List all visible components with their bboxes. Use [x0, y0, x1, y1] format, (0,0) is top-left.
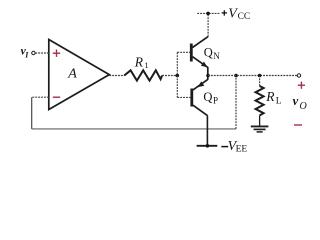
svg-text:L: L — [276, 96, 282, 106]
output polarity + — [298, 82, 305, 89]
svg-text:Q: Q — [203, 90, 212, 104]
op-amp U1 triangle — [49, 40, 110, 110]
output terminal circle — [297, 74, 300, 77]
svg-text:1: 1 — [144, 60, 148, 70]
+VCC supply tick — [197, 12, 220, 14]
svg-text:Q: Q — [204, 46, 213, 60]
svg-text:O: O — [300, 101, 307, 112]
wire feedback bottom run — [32, 128, 236, 130]
node feedback tap on output wire — [234, 74, 238, 78]
wire base bus vertical — [176, 52, 178, 97]
svg-text:R: R — [134, 54, 144, 69]
node RL tap — [258, 74, 262, 78]
wire to QP base — [177, 96, 190, 98]
node at -VEE tick — [206, 144, 210, 148]
wire - input stub — [32, 96, 49, 98]
op-amp - input polarity mark — [53, 96, 60, 98]
wire feedback left vertical — [31, 97, 33, 129]
wire feedback right vertical — [235, 76, 237, 129]
svg-text:v: v — [293, 94, 299, 108]
-VEE supply tick — [197, 145, 218, 147]
wire output run to terminal — [208, 75, 297, 77]
op-amp + input polarity mark — [53, 50, 60, 57]
wire RL bottom stub — [259, 115, 261, 126]
label -VEE — [221, 146, 228, 148]
input terminal circle — [32, 51, 35, 54]
wire RL top stub — [259, 76, 261, 87]
resistor RL — [256, 86, 264, 115]
svg-text:R: R — [265, 89, 275, 104]
svg-text:A: A — [67, 67, 77, 82]
svg-text:EE: EE — [236, 145, 248, 155]
svg-text:N: N — [213, 51, 220, 61]
output polarity - — [294, 124, 302, 126]
wire QN collector to +VCC — [207, 13, 209, 36]
node at +VCC tick — [206, 12, 210, 16]
ground — [251, 126, 269, 131]
node emitters junction — [206, 74, 210, 78]
wire op-amp output to R1 — [109, 75, 124, 77]
resistor R1 — [124, 70, 162, 80]
label +VCC — [222, 10, 227, 15]
transistor QP (pnp) — [192, 76, 208, 116]
svg-text:CC: CC — [238, 12, 251, 22]
wire to QN base — [177, 51, 190, 53]
wire R1 to bases — [162, 75, 177, 77]
transistor QN (npn) — [191, 37, 208, 76]
node bases junction — [176, 74, 180, 78]
wire QP collector to -VEE — [206, 115, 208, 145]
svg-text:P: P — [213, 95, 218, 105]
wire vI to + input — [35, 52, 49, 54]
